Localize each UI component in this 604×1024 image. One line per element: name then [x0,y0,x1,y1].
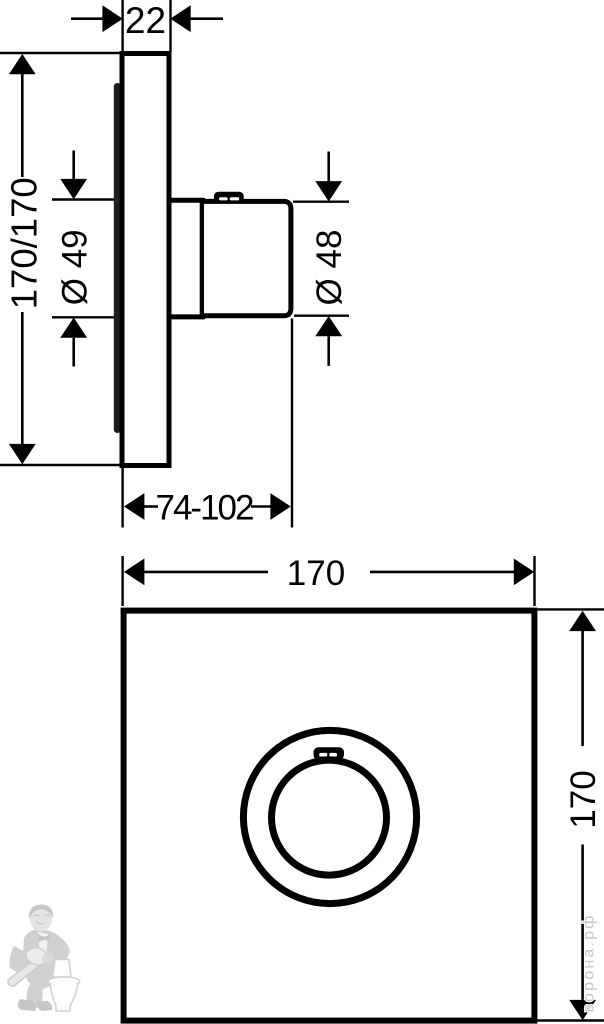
seal gasket behind plate [114,83,121,433]
plumber head [30,907,52,932]
dim 74-102 right extension line [291,319,293,528]
dim 170 right down arrow [569,1000,596,1020]
square front plate [124,611,535,1021]
dim D48 top extension line [293,200,349,202]
plumber torso jacket [22,930,66,990]
dim 170 right upper shaft [581,631,584,746]
dim 170 top right shaft [370,571,514,574]
dim 170 right up arrow [569,611,596,631]
svg-text:22: 22 [125,0,166,41]
plumber shirt [38,932,48,958]
plumber bow tie [38,934,50,942]
knob body (side view) [204,201,291,315]
dim D48 upper shaft [327,152,330,182]
plumber pipe in hands [26,948,47,965]
dim 170/170 up arrow [9,54,36,74]
plumber shoe left [18,999,36,1011]
dim 74-102 right arrow [270,493,290,520]
notch white slit right [329,753,337,757]
dim D48 lower shaft [327,336,330,366]
dim D49 lower shaft [72,338,75,367]
dim 170 right bottom extension line [537,1019,604,1021]
dim 170/170 down arrow [9,444,36,464]
wall plate (side view) [122,54,169,466]
knob neck top line [167,198,204,203]
plumber hair [29,905,53,920]
plumber shoe right [37,1001,52,1011]
plumber right shoulder [54,936,70,964]
dim D49 down arrow [60,179,87,199]
inner circle of knob (front) [272,760,387,875]
knob top button [214,192,244,204]
svg-text:170/170: 170/170 [3,177,44,309]
dim 170 top right arrow [514,559,534,586]
dim 74-102 right shaft [251,505,271,508]
extension line top of dim 170/170 [0,52,120,54]
dim 170 top left extension line [121,556,123,606]
dim 170 top right extension line [533,556,535,606]
extension line left of dim 22 [121,0,123,52]
knob neck bottom line [167,314,204,319]
toilet tank [53,960,72,978]
svg-text:170: 170 [287,554,345,593]
svg-text:ворона.рф: ворона.рф [581,913,598,1012]
plumber face shading [34,915,50,924]
dim 74-102 left extension line [121,467,123,528]
plumber hand on pipe [42,953,54,963]
dim 74-102 left shaft [144,505,158,508]
front knob notch [314,747,345,760]
extension line bottom of dim 170/170 [0,464,120,466]
dim 22 right shaft [191,17,223,20]
toilet bowl [50,984,78,1011]
plumber left arm sleeve [10,946,33,978]
svg-text:Ø 48: Ø 48 [310,230,349,306]
toilet rim [48,977,80,986]
dim 170 top left shaft [144,571,268,574]
dim 170 right top extension line [537,608,604,610]
svg-text:Ø 49: Ø 49 [55,229,94,305]
dim 74-102 left arrow [124,493,144,520]
notch white slit left [319,753,327,757]
dim 170 right lower shaft [581,845,584,1000]
dim 170 top left arrow [124,559,144,586]
knob button white slit right [230,197,239,200]
dim 22 left shaft [71,17,103,20]
svg-text:170: 170 [564,770,603,828]
outer circle of knob (front) [243,730,416,903]
plumber wrench [8,958,41,986]
dim 170/170 lower shaft [21,312,24,445]
dim D49 top extension line [52,198,114,200]
dim 22 left arrow [102,5,122,32]
dim D48 down arrow [315,181,342,201]
dim D49 bottom extension line [52,316,114,318]
dim 22 right arrow [170,5,190,32]
dim 170/170 upper shaft [21,74,24,178]
extension line right of dim 22 [169,0,171,52]
plumber legs [26,984,42,1008]
dim D49 upper shaft [72,151,75,180]
dim D48 up arrow [315,316,342,336]
svg-text:74-102: 74-102 [156,488,254,527]
knob button white slit left [219,197,228,200]
knob flange [200,198,206,319]
dim D48 bottom extension line [294,315,349,317]
dim D49 up arrow [60,318,87,338]
